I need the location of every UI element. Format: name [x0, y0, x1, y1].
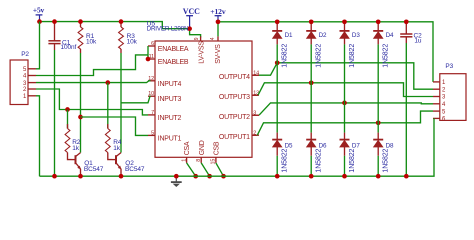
node VCC junction	[187, 26, 192, 31]
node R3 top junction	[119, 19, 124, 24]
wire P2-2 to INPUT2	[36, 89, 148, 115]
diode D2 1N5822	[306, 22, 327, 68]
svg-text:1N5822: 1N5822	[316, 148, 323, 172]
wire C2 to ground rail	[405, 43, 407, 176]
node OUTPUT4 diode junction	[275, 60, 280, 65]
wire ENABLEA to ENABLEB tie	[147, 46, 149, 59]
node D5 ground junction	[275, 174, 280, 179]
node ground symbol junction	[174, 174, 179, 179]
wire P2-3 to INPUT4	[36, 81, 151, 83]
svg-text:D3: D3	[352, 32, 360, 39]
node R4 branch junction	[105, 80, 110, 85]
svg-text:LV-VSS: LV-VSS	[199, 41, 206, 64]
resistor R1 10k	[78, 22, 97, 53]
wire CSA to ground rail	[187, 163, 196, 176]
svg-text:1k: 1k	[113, 145, 121, 152]
pin 3 OUTPUT2	[219, 111, 259, 121]
svg-text:1k: 1k	[72, 145, 80, 152]
pin P3-2	[433, 87, 446, 93]
svg-text:P2: P2	[21, 51, 29, 58]
node D1 rail junction	[275, 19, 280, 24]
svg-text:D2: D2	[319, 32, 327, 39]
pin 8 GND	[196, 140, 206, 163]
pin P2-3	[23, 81, 36, 87]
svg-text:7: 7	[151, 110, 154, 116]
resistor R3 10k	[119, 22, 138, 53]
svg-text:D4: D4	[386, 32, 394, 39]
svg-text:INPUT1: INPUT1	[158, 135, 182, 142]
diode D1 1N5822	[272, 22, 293, 68]
diode D5 1N5822	[272, 140, 293, 173]
svg-text:INPUT4: INPUT4	[158, 81, 182, 88]
transistor Q2 BC547	[112, 153, 145, 177]
svg-text:1N5822: 1N5822	[282, 44, 289, 68]
diode D3 1N5822	[340, 22, 361, 68]
node R2 branch junction A	[65, 107, 70, 112]
svg-text:10k: 10k	[127, 39, 138, 46]
wire +5v rail to IC pin9	[40, 22, 190, 29]
svg-text:VCC: VCC	[183, 7, 200, 16]
ground	[171, 176, 182, 187]
pin P2-1	[23, 94, 36, 100]
diode D6 1N5822	[306, 140, 327, 173]
wire GND to ground rail	[201, 163, 209, 176]
diode D8 1N5822	[373, 140, 394, 173]
svg-text:9: 9	[194, 37, 200, 40]
pin P2-2	[23, 87, 36, 93]
wire CSB to ground rail	[216, 163, 224, 176]
svg-text:BC547: BC547	[84, 166, 104, 173]
pin P2-4	[23, 74, 36, 80]
node OUTPUT1 diode junction	[376, 120, 381, 125]
svg-text:SV-VS: SV-VS	[215, 44, 222, 64]
svg-text:4: 4	[210, 37, 216, 40]
pin 15 CSB	[211, 141, 221, 164]
svg-text:1N5822: 1N5822	[383, 148, 390, 172]
wire D8 to ground rail	[377, 156, 379, 176]
+5v supply symbol	[33, 5, 45, 21]
node C2 top junction	[404, 19, 409, 24]
svg-text:D1: D1	[285, 32, 293, 39]
svg-text:10: 10	[148, 91, 154, 97]
wire +12v to IC pin4	[217, 22, 219, 37]
connector P2	[10, 51, 29, 104]
node C1 ground junction	[52, 174, 57, 179]
wire P2-4 to ENABLE	[36, 55, 148, 76]
svg-text:8: 8	[196, 159, 202, 162]
node Q2 emitter ground junction	[119, 174, 124, 179]
wire P2-1 to ground rail	[36, 96, 40, 176]
wire D7 to ground rail	[344, 156, 346, 176]
wire D1 column	[276, 44, 278, 132]
wire OUTPUT4 to P3-2	[252, 74, 259, 76]
wire OUTPUT1 to P3-5	[252, 134, 257, 136]
wire R3 to Q2 collector / INPUT3 node	[120, 53, 122, 153]
node R1 top junction	[78, 19, 83, 24]
svg-text:D5: D5	[285, 143, 293, 150]
pin 6 ENABLEA	[148, 41, 189, 53]
diode D7 1N5822	[340, 140, 361, 173]
node D4 rail junction	[376, 19, 381, 24]
svg-text:OUTPUT4: OUTPUT4	[219, 74, 250, 81]
pin P2-5	[23, 67, 36, 73]
resistor R4 1k	[105, 83, 121, 160]
svg-text:GND: GND	[199, 140, 206, 155]
svg-text:CSA: CSA	[184, 141, 191, 155]
svg-text:5: 5	[151, 130, 154, 136]
node D3 rail junction	[342, 19, 347, 24]
node CSB ground junction	[221, 174, 226, 179]
pin 11 ENABLEB	[148, 54, 189, 66]
node D7 ground junction	[342, 174, 347, 179]
svg-text:1N5822: 1N5822	[282, 148, 289, 172]
svg-text:1N5822: 1N5822	[316, 44, 323, 68]
pin P3-6	[433, 117, 446, 123]
node CSA ground junction	[193, 174, 198, 179]
node Q1 emitter ground junction	[78, 174, 83, 179]
svg-text:OUTPUT2: OUTPUT2	[219, 114, 250, 121]
pin 9 LV-VSS	[194, 36, 205, 63]
wire D5 to ground rail	[276, 156, 278, 176]
svg-text:+5v: +5v	[33, 5, 45, 14]
svg-text:OUTPUT1: OUTPUT1	[219, 134, 250, 141]
IC U5 DRIVER L298N	[147, 20, 252, 157]
wire C1 to ground rail	[54, 50, 56, 176]
pin 7 INPUT2	[148, 110, 182, 122]
wire +12v rail to P3 pin1	[218, 22, 433, 82]
wire ground rail	[40, 118, 435, 176]
svg-text:INPUT2: INPUT2	[158, 115, 182, 122]
wire D4 column	[377, 44, 379, 132]
wire D6 to ground rail	[310, 156, 312, 176]
svg-text:1N5822: 1N5822	[349, 148, 356, 172]
svg-text:BC547: BC547	[125, 166, 145, 173]
diode D4 1N5822	[373, 22, 394, 68]
node +5v junction	[37, 19, 42, 24]
svg-text:10k: 10k	[86, 39, 97, 46]
wire R1 to Q1 collector / INPUT1 node	[80, 53, 82, 153]
svg-text:D7: D7	[352, 143, 360, 150]
node +12v junction	[216, 19, 221, 24]
node D8 ground junction	[376, 174, 381, 179]
pin 5 INPUT1	[148, 130, 182, 142]
pin P3-4	[433, 102, 446, 108]
node C2 ground junction	[404, 174, 409, 179]
VCC supply symbol	[183, 7, 200, 29]
svg-text:6: 6	[151, 41, 154, 47]
svg-text:ENABLEA: ENABLEA	[158, 46, 189, 53]
svg-text:D8: D8	[386, 143, 394, 150]
svg-text:DRIVER L298N: DRIVER L298N	[147, 26, 189, 33]
wire INPUT3 node to IC INPUT3	[121, 96, 151, 103]
pin P3-5	[433, 109, 446, 115]
svg-text:P3: P3	[445, 63, 453, 70]
wire P2-5 to +5v	[36, 22, 40, 69]
pin 10 INPUT3	[148, 91, 182, 103]
+12v supply symbol	[210, 7, 226, 22]
pin P3-3	[433, 95, 446, 101]
node D2 rail junction	[309, 19, 314, 24]
svg-text:CSB: CSB	[214, 141, 221, 155]
pin 4 SV-VS	[210, 36, 222, 63]
resistor R2 1k	[65, 110, 81, 160]
transistor Q1 BC547	[72, 153, 104, 177]
node OUTPUT2 diode junction	[342, 101, 347, 106]
wire VCC to IC pin9	[190, 29, 201, 38]
pin P3-1	[433, 80, 446, 86]
wire D3 column	[344, 44, 346, 132]
pin 2 OUTPUT1	[219, 131, 259, 141]
pin 1 CSA	[181, 141, 191, 163]
svg-text:1N5822: 1N5822	[383, 44, 390, 68]
node GND ground junction	[207, 174, 212, 179]
svg-text:100nf: 100nf	[61, 44, 77, 51]
svg-text:1: 1	[181, 159, 187, 162]
svg-text:INPUT3: INPUT3	[158, 96, 182, 103]
svg-text:D6: D6	[319, 143, 327, 150]
node OUTPUT3 diode junction	[309, 80, 314, 85]
node D6 ground junction	[309, 174, 314, 179]
wire OUTPUT3 to P3-3	[252, 94, 258, 96]
wire OUTPUT2 to P3-4	[252, 114, 259, 116]
node C1 top junction	[52, 19, 57, 24]
svg-text:+12v: +12v	[210, 7, 226, 16]
pin 14 OUTPUT4	[219, 71, 259, 81]
connector P3	[440, 63, 466, 120]
svg-text:1u: 1u	[414, 37, 422, 44]
pin 12 INPUT4	[148, 76, 182, 88]
pin 13 OUTPUT3	[219, 91, 259, 101]
svg-text:1N5822: 1N5822	[349, 44, 356, 68]
wire INPUT1 node to IC INPUT1	[81, 117, 149, 135]
capacitor C2 1u	[400, 22, 422, 45]
node INPUT1 branch junction B	[78, 115, 83, 120]
svg-text:ENABLEB: ENABLEB	[158, 59, 189, 66]
svg-text:OUTPUT3: OUTPUT3	[219, 94, 250, 101]
wire D2 column	[310, 44, 312, 132]
node ENABLEB junction	[146, 57, 151, 62]
capacitor C1 100nf	[48, 22, 76, 51]
